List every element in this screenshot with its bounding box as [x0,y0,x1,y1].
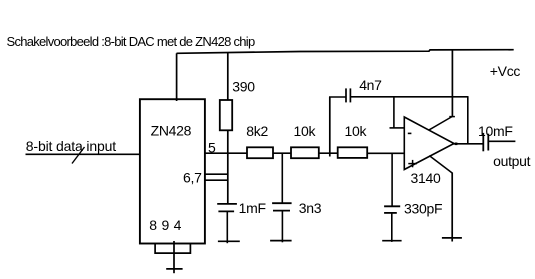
wire op-amp output [453,143,484,145]
svg-text:390: 390 [232,79,255,95]
svg-text:output: output [493,153,531,169]
plus input symbol [408,163,417,165]
svg-text:8-bit data input: 8-bit data input [26,138,116,154]
ground (330pF) [382,240,401,242]
bus slash [72,147,85,164]
ground (op-amp) [442,237,462,239]
capacitor C3 3n3 plates [272,202,292,204]
wire chip ground stem [173,241,175,273]
wire output right [488,140,515,142]
resistor R2 8k2 [247,147,273,158]
svg-text:330pF: 330pF [404,200,442,216]
wire chip top to rail [176,53,178,101]
wire pins 6,7 double [205,173,228,175]
resistor R4 10k [338,147,368,158]
wire junction up to 4n7 [329,97,331,157]
wire 10k2 to op-amp [367,152,404,154]
svg-text:3n3: 3n3 [299,200,322,216]
minus input symbol [408,132,412,134]
svg-text:+Vcc: +Vcc [490,63,521,79]
wire data input [26,153,140,155]
capacitor C5 10mF plates [482,133,484,151]
wire 330pF branch down [391,153,393,206]
svg-text:6,7: 6,7 [183,169,202,185]
ground (3n3) [270,240,292,242]
svg-text:1mF: 1mF [239,200,266,216]
wire 3n3 to ground [281,211,283,243]
wire 390 top lead [227,53,229,101]
resistor R3 10k [291,147,319,158]
capacitor C1 4n7 plates [345,88,347,102]
chip ground notch box [155,244,190,254]
wire feedback down to output [467,97,469,144]
op-amp U2 triangle [404,117,454,170]
svg-text:4n7: 4n7 [359,77,382,93]
wire op-amp V- diagonal to ground [429,156,452,173]
svg-text:10k: 10k [345,123,368,139]
svg-text:8k2: 8k2 [246,123,268,139]
svg-text:Schakelvoorbeeld :8-bit DAC me: Schakelvoorbeeld :8-bit DAC met de ZN428… [7,34,255,49]
wire inverting input drop [393,97,395,128]
ground (chip) [166,268,182,270]
wire 4n7 left [329,96,346,98]
capacitor C4 330pF plates [384,205,400,207]
ground (1mF) [218,240,240,242]
wire 390 bottom lead to 1mF [227,130,229,203]
wire 1mF to ground [226,211,228,243]
resistor R1 390 [220,100,232,130]
svg-text:8 9 4: 8 9 4 [149,217,181,233]
wire 10k to 10k with junction [319,152,338,154]
op-amp U1 ZN428 chip body [140,99,205,243]
wire 330pF to ground [391,213,393,242]
node output junction dot [455,143,458,146]
wire pin5 to 8k2 [205,152,248,154]
wire 4n7 right feedback [350,96,468,98]
svg-text:ZN428: ZN428 [151,123,192,139]
capacitor C2 1mF plates [217,203,237,205]
wire 3n3 branch down [281,153,283,203]
svg-text:10mF: 10mF [478,123,513,139]
wire 8k2 to 10k [273,152,292,154]
svg-text:10k: 10k [294,123,317,139]
svg-text:3140: 3140 [411,170,441,186]
wire +Vcc top rail [177,50,514,54]
wire op-amp V+ diagonal to rail [429,117,452,131]
